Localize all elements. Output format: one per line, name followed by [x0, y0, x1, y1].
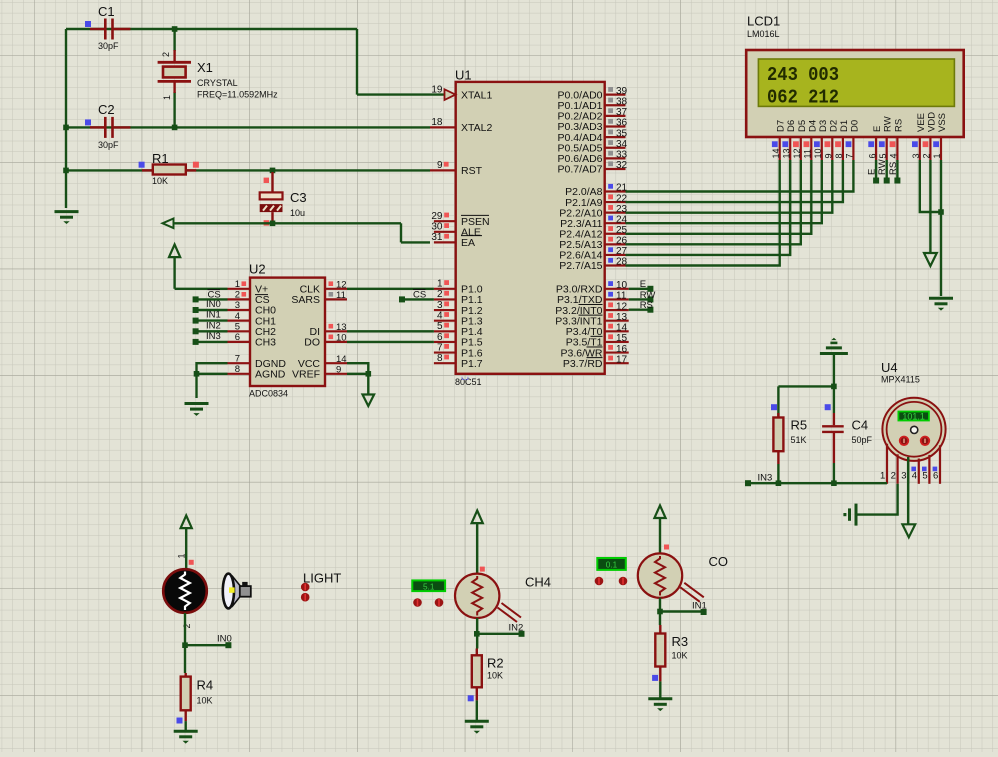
svg-text:R4: R4 [197, 678, 214, 693]
wire R3 to ground [659, 681, 661, 697]
svg-text:50pF: 50pF [852, 435, 873, 445]
wire to IN2 terminal [477, 633, 521, 635]
junction IN0 [182, 642, 188, 648]
svg-text:CO: CO [709, 554, 729, 569]
terminal square RW [647, 296, 653, 302]
svg-text:MPX4115: MPX4115 [881, 375, 920, 385]
power terminal [654, 505, 665, 518]
U1 pin 1 P1.0 [434, 288, 456, 290]
U4 pin 5 blue marker [922, 467, 927, 472]
U4 pin 2 [896, 454, 898, 483]
svg-text:C2: C2 [98, 102, 115, 117]
svg-text:RS: RS [640, 300, 653, 311]
U2 pin 2 CS [228, 298, 251, 300]
power terminal [181, 516, 192, 529]
svg-text:2: 2 [922, 153, 932, 158]
wire down to XTAL1 [356, 29, 358, 95]
capacitor C1 [90, 19, 130, 40]
wire R4 to ground [184, 721, 186, 730]
U1 pin 39 P0.0/AD0 [605, 93, 626, 95]
svg-text:30pF: 30pF [98, 140, 119, 150]
svg-text:33: 33 [616, 150, 628, 161]
svg-text:9: 9 [336, 365, 341, 376]
CO readout display [597, 558, 626, 570]
terminal RW at U1 P3 [629, 298, 651, 300]
sensor U4 MPX4115 [882, 398, 945, 461]
svg-text:10: 10 [813, 148, 823, 158]
wire R2 to ground [476, 700, 478, 720]
svg-text:⌞⌟: ⌞⌟ [461, 371, 469, 381]
svg-text:U2: U2 [249, 262, 266, 277]
U1 pin 29 PSEN [434, 220, 456, 222]
svg-text:U1: U1 [455, 67, 472, 82]
wire ground to C4 top [833, 354, 835, 387]
CO pin marker [664, 545, 669, 550]
crystal X1 [158, 50, 191, 93]
svg-text:9: 9 [437, 160, 443, 171]
junction crystal pin2 / C1 net [172, 26, 178, 32]
junction crystal pin1 / C2 net [172, 125, 178, 131]
U2 pin 11 SARS [325, 298, 347, 300]
terminal [193, 318, 199, 324]
wire to IN0 terminal [185, 644, 228, 646]
svg-text:10K: 10K [152, 176, 168, 186]
svg-text:18: 18 [431, 117, 443, 128]
U1 pin 24 P2.3/A11 [605, 222, 626, 224]
wire D2 to P2.2/A10 [626, 160, 833, 213]
wire to IN1 terminal [660, 610, 704, 612]
svg-text:D0: D0 [849, 120, 860, 132]
svg-text:FREQ=11.0592MHz: FREQ=11.0592MHz [197, 90, 278, 100]
R1 blue marker [139, 162, 145, 168]
wire crystal pin2 [173, 29, 175, 51]
ground R3 [648, 699, 672, 711]
wire IN2 to U2 [196, 330, 228, 332]
svg-text:4: 4 [912, 471, 917, 482]
svg-text:2: 2 [891, 471, 896, 482]
svg-text:10: 10 [336, 333, 347, 344]
wire D0 to P2.0/A8 [626, 160, 854, 192]
resistor R3 [659, 625, 661, 634]
svg-text:30pF: 30pF [98, 41, 119, 51]
U4 vent hole [911, 426, 918, 433]
svg-text:RST: RST [461, 165, 483, 177]
sensor CO (gas sensor) [638, 553, 704, 601]
terminal square RW (LCD) [884, 178, 890, 184]
U1 pin 31 EA [434, 241, 456, 243]
svg-text:DO: DO [304, 337, 320, 349]
svg-text:IN1: IN1 [206, 310, 221, 321]
U1 pin 6 P1.5 [434, 341, 456, 343]
wire U2 VCC/VREF to power [347, 363, 368, 374]
LCD1 LM016L display module [746, 50, 964, 137]
svg-text:3: 3 [437, 300, 443, 311]
R3 blue marker [652, 675, 658, 681]
wire LDR to R4 [184, 613, 186, 673]
svg-text:34: 34 [616, 139, 628, 150]
junction R5 bottom [776, 480, 782, 486]
U1 pin 5 P1.4 [434, 330, 456, 332]
U2 pin 5 CH2 [228, 330, 251, 332]
wire into U2 pin1 [175, 288, 228, 290]
terminal square IN2 [519, 631, 525, 637]
svg-text:10K: 10K [487, 670, 503, 680]
svg-text:EA: EA [461, 237, 475, 249]
svg-text:IN1: IN1 [692, 600, 707, 611]
C3 red marker top [264, 178, 269, 183]
capacitor C1 plates [90, 19, 130, 40]
U1 pin 12 P3.2/INT0 [605, 309, 629, 311]
svg-text:1: 1 [880, 471, 885, 482]
U2 pin 6 CH3 [228, 341, 251, 343]
svg-text:1: 1 [235, 279, 240, 290]
wire power to LDR [185, 528, 187, 570]
svg-text:243 003: 243 003 [767, 64, 839, 86]
wire D4 to P2.4/A12 [626, 160, 812, 234]
svg-text:D7: D7 [776, 120, 787, 132]
svg-text:D3: D3 [818, 120, 829, 132]
LIGHT indicator circles [301, 583, 310, 602]
R4 blue marker [177, 718, 183, 724]
U1 pin 16 P3.6/WR [605, 351, 629, 353]
wire C1 top net [66, 28, 357, 30]
U4 pin 3 [907, 458, 909, 483]
svg-text:2: 2 [437, 289, 443, 300]
wire U2 DGND/AGND to ground [197, 363, 228, 374]
svg-text:RW: RW [877, 159, 888, 175]
LDR light sensor (torch) [163, 569, 207, 613]
svg-text:IN2: IN2 [206, 320, 221, 331]
U4 pin 5 [928, 455, 930, 484]
power terminal [169, 245, 180, 258]
svg-text:11: 11 [336, 290, 346, 301]
terminal square CS at P1.1 [399, 296, 405, 302]
op-amp U1 (80C51 MCU) body [456, 82, 605, 374]
wire EA net vertical [400, 223, 402, 242]
wire U2 DI to U1 P1.4 [347, 330, 434, 332]
wire D5 to P2.5/A13 [626, 160, 801, 244]
svg-text:IN0: IN0 [206, 299, 221, 310]
junction VCC/VREF [366, 371, 372, 377]
resistor R5 [777, 386, 779, 417]
U1 pin 35 P0.4/AD4 [605, 136, 626, 138]
svg-text:VREF: VREF [292, 369, 320, 381]
U2 pin 8 AGND [228, 373, 251, 375]
svg-text:31: 31 [431, 232, 443, 243]
power terminal below U4 (down arrow) [902, 524, 915, 537]
svg-text:12: 12 [792, 148, 802, 158]
svg-text:E: E [872, 126, 883, 132]
U2 pin 7 DGND [228, 362, 251, 364]
wire U2 DO to U1 P1.5 [347, 341, 434, 343]
U1 pin 38 P0.1/AD1 [605, 104, 626, 106]
svg-text:1: 1 [177, 553, 187, 558]
power terminal below U2 (down arrow) [363, 395, 375, 407]
wire CS to U2 pin2 [196, 298, 228, 300]
C2 marker square [85, 119, 91, 125]
resistor R2 body [472, 655, 482, 687]
U2 pin 9 VREF [325, 373, 347, 375]
svg-text:36: 36 [616, 118, 628, 129]
wire D6 to P2.6/A14 [626, 160, 791, 255]
svg-text:6: 6 [933, 471, 938, 482]
wire to U2 ground [195, 374, 197, 398]
svg-text:17: 17 [616, 354, 628, 365]
wire power to CO sensor [659, 518, 661, 554]
svg-text:15: 15 [616, 333, 628, 344]
svg-text:VEE: VEE [916, 113, 927, 132]
U4 pin 4 blue marker [911, 467, 916, 472]
terminal [193, 339, 199, 345]
svg-text:3: 3 [901, 471, 906, 482]
capacitor C4 [833, 386, 835, 413]
ground R4 [174, 731, 198, 743]
svg-text:5: 5 [878, 153, 888, 158]
U1 pin 22 P2.1/A9 [605, 201, 626, 203]
svg-text:AGND: AGND [255, 369, 286, 381]
svg-text:13: 13 [336, 322, 347, 333]
svg-text:7: 7 [235, 353, 240, 364]
resistor R3 body [655, 634, 665, 667]
svg-text:7: 7 [845, 153, 855, 158]
ground left of U4 (rotated) [843, 504, 856, 526]
R5 blue marker [771, 404, 777, 410]
U2 pin 13 DI [325, 330, 347, 332]
resistor R2 [476, 649, 478, 656]
svg-text:3: 3 [235, 300, 240, 311]
capacitor C3 (electrolytic) [260, 172, 283, 223]
wire D1 to P2.1/A9 [626, 160, 843, 202]
resistor R1 [142, 169, 153, 171]
U1 pin 37 P0.2/AD2 [605, 115, 626, 117]
U1 pin 10 P3.0/RXD [605, 288, 629, 290]
terminal E at U1 P3 [629, 288, 651, 290]
svg-text:32: 32 [616, 160, 628, 171]
U1 pin 11 P3.1/TXD [605, 298, 629, 300]
U1 pin 7 P1.6 [434, 351, 456, 353]
power terminal [472, 511, 483, 524]
wire D3 to P2.3/A11 [626, 160, 822, 223]
U1 pin 36 P0.3/AD3 [605, 125, 626, 127]
junction IN2 [474, 631, 480, 637]
svg-text:29: 29 [431, 211, 443, 222]
svg-text:RS: RS [888, 162, 899, 175]
U4 pin 6 blue marker [933, 467, 938, 472]
svg-text:4: 4 [889, 153, 899, 158]
svg-text:VSS: VSS [937, 113, 948, 132]
svg-text:LIGHT: LIGHT [303, 571, 341, 586]
svg-text:38: 38 [616, 96, 628, 107]
svg-text:1: 1 [437, 279, 443, 290]
ground left rail [55, 212, 79, 224]
wire VDD to power [929, 160, 931, 253]
input terminal arrow (EA net) [163, 219, 174, 229]
svg-text:5: 5 [437, 321, 443, 332]
terminal square E [647, 286, 653, 292]
svg-text:D5: D5 [797, 120, 808, 132]
ground U2 [185, 404, 209, 416]
U1 pin 26 P2.5/A13 [605, 243, 626, 245]
svg-text:SARS: SARS [291, 294, 320, 306]
svg-text:13: 13 [781, 148, 791, 158]
junction C4 top [831, 384, 837, 390]
svg-text:10u: 10u [290, 208, 305, 218]
svg-text:CH4: CH4 [525, 574, 551, 589]
terminal square E (LCD) [873, 178, 879, 184]
svg-text:6: 6 [235, 332, 240, 343]
svg-text:RW: RW [883, 116, 894, 132]
terminal square IN0 [225, 642, 231, 648]
torch icon [223, 574, 251, 609]
svg-text:062 212: 062 212 [767, 87, 839, 109]
svg-text:10K: 10K [197, 696, 213, 706]
svg-text:D6: D6 [786, 120, 797, 132]
U1 pin 9 RST [430, 169, 456, 171]
svg-text:D4: D4 [807, 120, 818, 132]
svg-text:14: 14 [616, 323, 628, 334]
U1 pin 15 P3.5/T1 [605, 341, 629, 343]
U1 pin 30 ALE [434, 231, 456, 233]
U1 pin 25 P2.4/A12 [605, 233, 626, 235]
wire power to CH4 sensor [476, 523, 478, 575]
svg-text:IN2: IN2 [509, 622, 524, 633]
svg-text:13: 13 [616, 312, 628, 323]
svg-text:30: 30 [431, 222, 443, 233]
terminal square RS (LCD) [894, 178, 900, 184]
wire C2 / XTAL2 net [66, 126, 430, 128]
svg-text:R2: R2 [487, 656, 504, 671]
svg-text:16: 16 [616, 344, 628, 355]
svg-text:1: 1 [932, 153, 942, 158]
terminal [193, 328, 199, 334]
C4 blue marker [825, 404, 831, 410]
C3 red marker bottom [264, 220, 269, 225]
svg-text:ADC0834: ADC0834 [249, 389, 288, 399]
U1 pin 33 P0.6/AD6 [605, 157, 626, 159]
U1 pin 13 P3.3/INT1 [605, 320, 629, 322]
svg-text:R1: R1 [152, 151, 169, 166]
svg-text:D1: D1 [839, 120, 850, 132]
svg-text:5: 5 [922, 471, 927, 482]
terminal RS at U1 P3 [629, 309, 651, 311]
wire crystal pin1 [173, 92, 175, 127]
wire VSS to ground [940, 160, 942, 296]
U2 pin 3 CH0 [228, 309, 251, 311]
U1 pin 34 P0.5/AD5 [605, 147, 626, 149]
svg-text:4: 4 [235, 311, 240, 322]
svg-text:U4: U4 [881, 360, 898, 375]
U1 pin 23 P2.2/A10 [605, 212, 626, 214]
svg-text:2: 2 [161, 52, 171, 57]
U1 pin 28 P2.7/A15 [605, 264, 626, 266]
svg-text:P2.7/A15: P2.7/A15 [559, 260, 602, 272]
wire EA net horizontal [174, 222, 402, 224]
resistor R4 body [181, 677, 191, 711]
svg-text:5.1: 5.1 [423, 583, 435, 592]
svg-text:2: 2 [182, 623, 192, 628]
wire U4 pin3 to power (down arrow) [907, 457, 909, 524]
svg-text:3: 3 [911, 153, 921, 158]
svg-text:8: 8 [437, 353, 443, 364]
C1 marker square [85, 21, 91, 27]
svg-text:19: 19 [431, 84, 443, 95]
svg-text:101.1: 101.1 [902, 412, 925, 422]
svg-text:35: 35 [616, 128, 628, 139]
svg-text:P3.7/RD: P3.7/RD [563, 358, 603, 370]
LCD screen [758, 59, 954, 106]
R2 blue marker [468, 695, 474, 701]
junction VEE/VSS [938, 209, 944, 215]
wire CS to U1 P1.1 [402, 298, 434, 300]
junction C3 top / RST net [270, 168, 276, 174]
capacitor C2 plates [90, 117, 130, 138]
capacitor C2 [90, 117, 130, 138]
svg-text:7: 7 [437, 342, 443, 353]
U1 pin 3 P1.2 [434, 309, 456, 311]
U1 pin 21 P2.0/A8 [605, 190, 626, 192]
svg-text:4: 4 [437, 310, 443, 321]
svg-text:RS: RS [893, 119, 904, 132]
wire CH4 to R2 [476, 618, 478, 649]
LDR pin1 marker [189, 560, 194, 565]
svg-text:0.1: 0.1 [606, 561, 618, 570]
svg-text:8: 8 [834, 153, 844, 158]
resistor R1 body [153, 165, 186, 175]
U2 pin 14 VCC [325, 362, 347, 364]
junction C3 bottom / EA net [270, 221, 276, 227]
wire R5/C4 top net [778, 385, 834, 387]
svg-text:12: 12 [616, 301, 628, 312]
wire IN1 to U2 [196, 319, 228, 321]
wire to XTAL1 pin [357, 93, 444, 95]
junction left rail / R1 [63, 168, 69, 174]
svg-text:9: 9 [824, 153, 834, 158]
wire D7 to P2.7/A15 [626, 160, 780, 266]
U4 pin 6 [939, 445, 941, 484]
U4 display readout [898, 412, 929, 422]
wire R1 / RST net [66, 169, 430, 171]
CH4 pin marker [480, 567, 485, 572]
U2 pin 1 V+ [228, 288, 251, 290]
svg-text:E: E [867, 169, 878, 175]
terminal square IN3 [745, 480, 751, 486]
junction DGND/AGND [194, 371, 200, 377]
resistor R5 body [773, 418, 783, 452]
svg-text:12: 12 [336, 280, 347, 291]
resistor R4 [184, 673, 186, 677]
U4 pin 4 [918, 459, 920, 484]
U2 pin 4 CH1 [228, 320, 251, 322]
U4 pin 1 [886, 444, 888, 484]
svg-text:10: 10 [616, 280, 628, 291]
svg-text:6: 6 [867, 153, 877, 158]
ground LCD VSS [929, 298, 953, 310]
U1 pin 19 XTAL1 [445, 89, 456, 100]
svg-text:5: 5 [235, 322, 240, 333]
U1 pin 4 P1.3 [434, 320, 456, 322]
U2 pin 12 CLK [325, 288, 347, 290]
U4 port circles [900, 437, 930, 446]
wire IN3 net [748, 482, 887, 484]
U1 pin 18 XTAL2 [430, 126, 456, 128]
U1 pin 14 P3.4/T0 [605, 330, 629, 332]
CO indicator circles [595, 577, 628, 586]
wire power to U2 V+ [173, 257, 175, 289]
U1 pin 32 P0.7/AD7 [605, 168, 626, 170]
CH4 indicator circles [413, 598, 443, 607]
svg-text:P0.7/AD7: P0.7/AD7 [558, 164, 603, 176]
svg-text:10K: 10K [672, 651, 688, 661]
